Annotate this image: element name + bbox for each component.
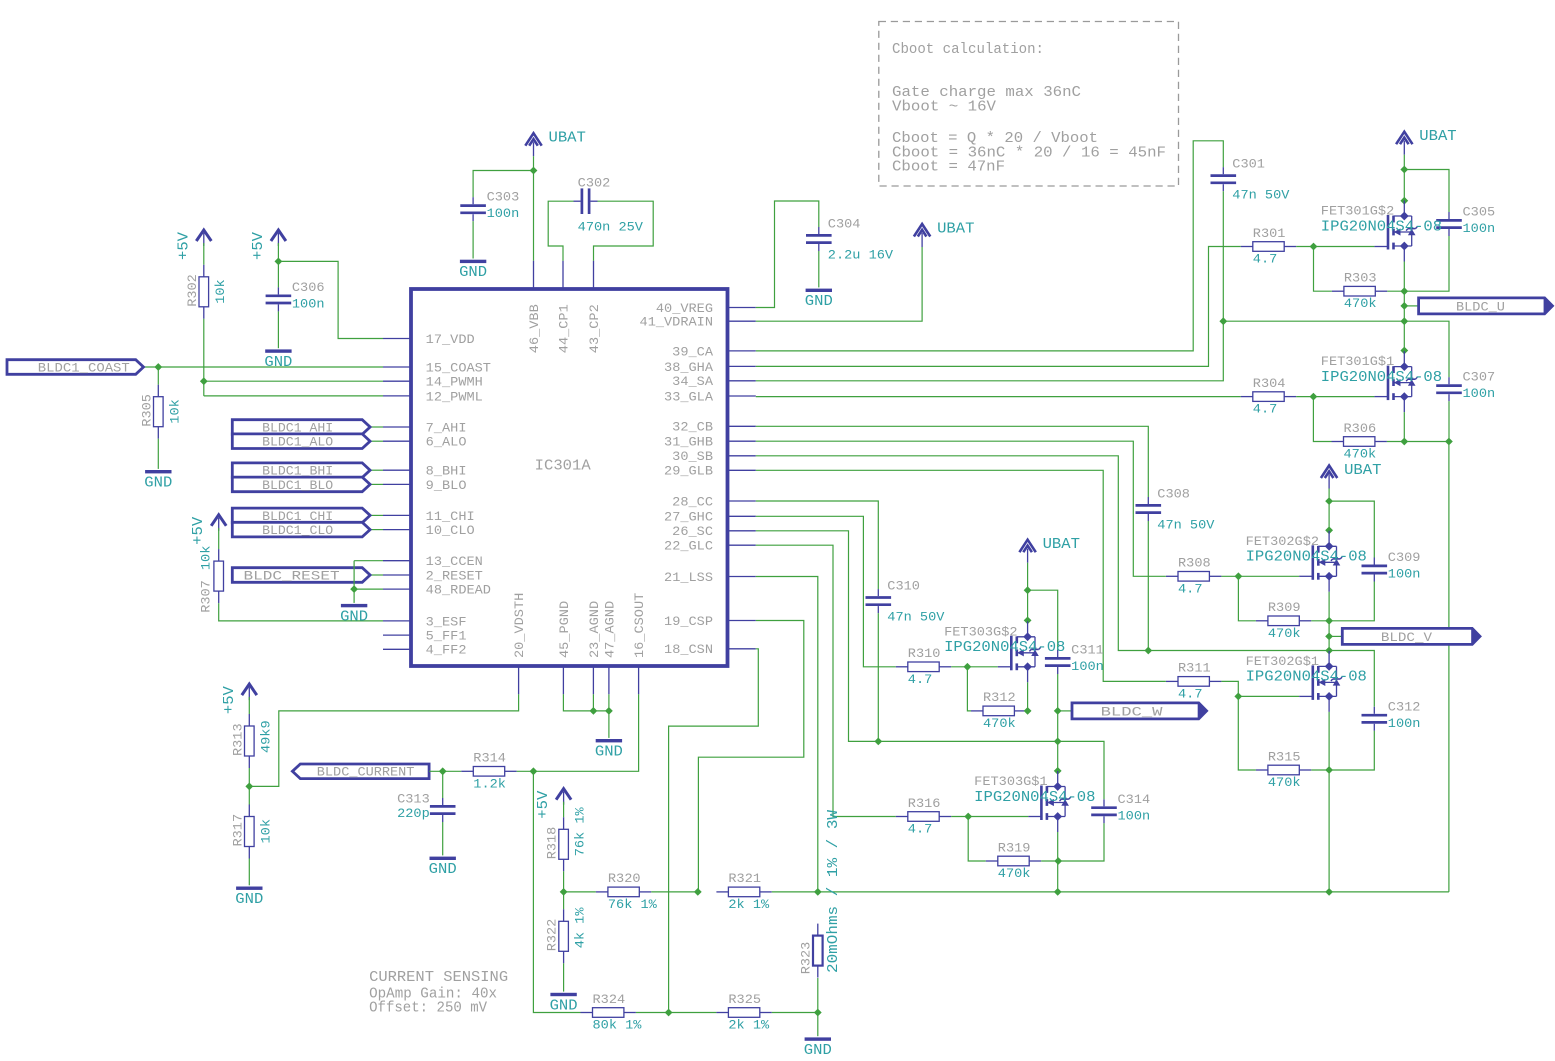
capacitor C301 [1222, 167, 1224, 174]
wire C307 bottom [1448, 401, 1450, 441]
svg-text:R305: R305 [139, 394, 154, 427]
svg-text:R302: R302 [185, 274, 200, 307]
svg-text:C306: C306 [292, 280, 325, 295]
svg-text:28_CC: 28_CC [672, 494, 713, 509]
wire AGND to ground [608, 711, 610, 738]
svg-text:R315: R315 [1268, 749, 1301, 764]
svg-text:10k: 10k [167, 399, 182, 424]
wire UBAT to FET302 drain [1328, 489, 1330, 531]
wire C309 bottom to phase V [1329, 582, 1374, 621]
svg-text:29_GLB: 29_GLB [664, 464, 713, 479]
capacitor C313 [442, 798, 444, 805]
wire R301 to gate junction [1296, 246, 1313, 248]
svg-text:C313: C313 [397, 792, 430, 807]
wire RDEAD to ground [354, 588, 383, 590]
svg-text:18_CSN: 18_CSN [664, 642, 713, 657]
svg-text:FET302G$1: FET302G$1 [1246, 654, 1320, 669]
svg-text:CURRENT SENSING: CURRENT SENSING [369, 970, 508, 986]
svg-text:45_PGND: 45_PGND [557, 601, 572, 658]
IC pin 10_CLO [383, 529, 411, 531]
junction R313/R317/VDSTH [245, 783, 253, 791]
junction SA/phase U [1400, 317, 1408, 325]
svg-text:GND: GND [429, 862, 457, 878]
wire gate V-high [1238, 575, 1299, 577]
wire R315 to phase source [1311, 769, 1329, 771]
transistor FET302G$2 (N-MOSFET) [1312, 545, 1315, 580]
wire gate node to R306 [1313, 397, 1331, 442]
wire FET303G2 source to phase node [1027, 682, 1029, 711]
capacitor C307 [1448, 377, 1450, 384]
svg-text:UBAT: UBAT [1344, 463, 1382, 479]
junction VDD/C306 [275, 258, 283, 266]
capacitor C308 [1147, 497, 1149, 504]
wire C312 bottom to R315 row [1329, 731, 1374, 770]
svg-text:R303: R303 [1344, 271, 1377, 286]
wire GLA to R304 [756, 396, 1241, 398]
ground [430, 857, 456, 860]
IC pin 12_PWML [383, 395, 411, 397]
svg-text:47_AGND: 47_AGND [602, 601, 617, 658]
svg-text:38_GHA: 38_GHA [664, 360, 713, 375]
wire BLDC1_CHI to IC [370, 514, 383, 516]
svg-text:14_PWMH: 14_PWMH [426, 375, 483, 390]
wire PWML [204, 395, 383, 397]
IC pin 23_AGND [592, 666, 594, 694]
wire gate W-high [967, 666, 997, 668]
wire C304 bottom to ground [818, 251, 820, 287]
svg-text:C304: C304 [828, 217, 861, 232]
svg-text:C311: C311 [1071, 643, 1104, 658]
junction phase U node [1400, 287, 1408, 295]
IC pin 46_VBB [533, 261, 535, 289]
junction R301/R303 gate node U-high [1310, 243, 1318, 251]
svg-text:2k 1%: 2k 1% [728, 1018, 769, 1033]
junction R308/R309 gate node V-high [1235, 572, 1243, 580]
svg-text:IC301A: IC301A [535, 459, 591, 475]
resistor R313 [248, 714, 250, 726]
wire BLDC_CURRENT to R314 [429, 770, 461, 772]
svg-text:470k: 470k [998, 866, 1031, 881]
IC pin 6_ALO [383, 440, 411, 442]
wire CSN [669, 649, 759, 1013]
junction R311/R315 gate node V-low [1234, 693, 1242, 701]
svg-text:UBAT: UBAT [937, 221, 975, 237]
resistor R312 [971, 710, 983, 712]
junction source/R319/C314 [1054, 857, 1062, 865]
wire gate V-low [1238, 695, 1299, 697]
svg-text:100n: 100n [1071, 659, 1104, 674]
wire AGND 23 [592, 694, 594, 711]
ground [806, 289, 832, 292]
svg-text:R310: R310 [908, 646, 941, 661]
svg-text:470k: 470k [1344, 447, 1377, 462]
wire gate node to R312 [967, 667, 971, 711]
svg-text:34_SA: 34_SA [672, 374, 713, 389]
wire SA to C307 top [1404, 321, 1449, 377]
svg-text:Cboot = 47nF: Cboot = 47nF [892, 159, 1005, 175]
junction drain pin U-low [1400, 347, 1408, 355]
transistor FET301G$2 (N-MOSFET) [1387, 215, 1390, 250]
IC pin 8_BHI [383, 469, 411, 471]
net flag BLDC1_CHI [232, 508, 370, 523]
svg-text:UBAT: UBAT [1419, 129, 1457, 145]
svg-text:10k: 10k [199, 545, 214, 570]
svg-text:4k 1%: 4k 1% [573, 907, 588, 948]
wire R323 to CSN node [817, 978, 819, 1036]
IC pin 14_PWMH [383, 380, 411, 382]
svg-text:C301: C301 [1232, 157, 1265, 172]
wire +5V to R307 [218, 528, 220, 549]
junction SB/phase V [1325, 647, 1333, 655]
net flag BLDC1_BHI [232, 463, 370, 478]
IC pin 40_VREG [728, 307, 756, 309]
wire C313 top [442, 771, 444, 798]
wire C311 top branch [1028, 590, 1058, 650]
resistor R305 [157, 385, 159, 397]
svg-text:+5V: +5V [251, 232, 267, 260]
wire R307 to ESF pin [219, 603, 383, 621]
svg-text:100n: 100n [1463, 386, 1496, 401]
svg-text:R320: R320 [608, 871, 641, 886]
svg-text:IPG20N04S4-08: IPG20N04S4-08 [1246, 550, 1367, 566]
wire R309 to phase V [1311, 620, 1329, 622]
junction phase W/C311/flag [1054, 707, 1062, 715]
resistor R314 [461, 770, 473, 772]
svg-text:22_GLC: 22_GLC [664, 539, 713, 554]
wire gate node to R319 [968, 817, 986, 862]
svg-text:BLDC1_COAST: BLDC1_COAST [38, 360, 130, 375]
wire gate node to R303 [1314, 247, 1332, 292]
wire R313 to R317 [248, 768, 250, 805]
svg-text:R306: R306 [1344, 421, 1377, 436]
svg-text:11_CHI: 11_CHI [426, 509, 475, 524]
junction W source/bus [1054, 888, 1062, 896]
wire R314 to CSOUT node [517, 770, 534, 772]
svg-text:R309: R309 [1268, 600, 1301, 615]
svg-text:3_ESF: 3_ESF [426, 614, 467, 629]
wire BLDC_U stub [1404, 305, 1418, 307]
junction R323/R325/GND [814, 1009, 822, 1017]
wire GLB to R311 [756, 470, 1166, 681]
wire FET303G1 source down to bus [1057, 832, 1059, 892]
note box Cboot calculation [879, 22, 1179, 187]
svg-text:1.2k: 1.2k [473, 776, 506, 791]
UBAT supply [1321, 466, 1337, 479]
resistor R319 [986, 860, 998, 862]
resistor R310 [896, 666, 908, 668]
junction R310/R312 gate node W-high [964, 663, 972, 671]
wire R310 to gate junction [951, 666, 967, 668]
junction source/R306 [1400, 438, 1408, 446]
resistor R302 [203, 265, 205, 277]
wire R311 jog to gate junction [1221, 681, 1238, 696]
+5V supply [211, 515, 226, 526]
junction SA/C301 [1219, 317, 1227, 325]
svg-text:47n 50V: 47n 50V [1157, 518, 1214, 533]
svg-text:BLDC_W: BLDC_W [1101, 704, 1163, 719]
svg-text:100n: 100n [1388, 716, 1421, 731]
svg-text:UBAT: UBAT [1043, 537, 1081, 553]
svg-text:47n 50V: 47n 50V [1232, 188, 1289, 203]
IC pin 16_CSOUT [638, 666, 640, 694]
wire BLDC1_AHI to IC [370, 426, 383, 428]
wire VREG to C304 [756, 201, 819, 308]
IC pin 17_VDD [383, 338, 411, 340]
wire R317 to ground [248, 859, 250, 886]
IC pin 27_GHC [728, 515, 756, 517]
wire CA to C301 [756, 141, 1224, 351]
wire C301 bottom to SA node [1222, 191, 1224, 321]
wire R318 to divider node [563, 871, 565, 909]
svg-text:10k: 10k [213, 279, 228, 304]
svg-text:GND: GND [459, 265, 487, 281]
IC pin 22_GLC [728, 544, 756, 546]
junction UBAT/C305 branch [1400, 166, 1408, 174]
junction source/R315 [1325, 766, 1333, 774]
IC pin 48_RDEAD [383, 588, 411, 590]
IC pin 18_CSN [728, 648, 756, 650]
svg-text:BLDC1_BLO: BLDC1_BLO [262, 478, 333, 493]
capacitor C304 [818, 227, 820, 234]
svg-text:80k 1%: 80k 1% [593, 1018, 642, 1033]
ground [596, 739, 622, 742]
wire CB to C308 [756, 426, 1149, 497]
wire R306 to source node [1387, 441, 1404, 443]
svg-text:17_VDD: 17_VDD [426, 332, 475, 347]
svg-text:470k: 470k [983, 716, 1016, 731]
wire CSOUT to R314 node [533, 694, 638, 771]
svg-text:100n: 100n [487, 206, 520, 221]
svg-text:FET301G$1: FET301G$1 [1321, 354, 1395, 369]
ground [236, 887, 262, 890]
wire R303 to phase U [1387, 290, 1404, 292]
wire C305 bottom to phase U [1404, 236, 1449, 291]
wire BLDC_V stub [1329, 635, 1342, 637]
wire gate node to R315 [1238, 696, 1256, 770]
wire source row to right column [1404, 441, 1449, 443]
wire gate U-low [1313, 396, 1374, 398]
wire R325 to R323 bottom [772, 1012, 818, 1014]
IC pin 2_RESET [383, 574, 411, 576]
wire VDRAIN to UBAT [756, 247, 922, 321]
net flag BLDC1_AHI [232, 420, 370, 435]
wire AGND 47 [608, 694, 610, 711]
UBAT supply [914, 224, 930, 237]
svg-text:C309: C309 [1388, 550, 1421, 565]
svg-text:48_RDEAD: 48_RDEAD [426, 583, 491, 598]
svg-text:76k 1%: 76k 1% [608, 897, 657, 912]
wire C310 bottom to SC node [877, 613, 879, 741]
ground [460, 260, 486, 263]
svg-text:8_BHI: 8_BHI [426, 464, 467, 479]
wire R324 to CSN junction [636, 1012, 717, 1014]
UBAT supply [525, 133, 541, 146]
svg-text:43_CP2: 43_CP2 [587, 304, 602, 353]
capacitor C303 [472, 197, 474, 204]
junction phase W node [1024, 707, 1032, 715]
resistor R320 [596, 891, 608, 893]
wire R305 bottom to ground [157, 439, 159, 469]
svg-text:IPG20N04S4-08: IPG20N04S4-08 [944, 640, 1065, 656]
net flag BLDC1_COAST [7, 360, 144, 375]
svg-text:5_FF1: 5_FF1 [426, 629, 467, 644]
junction SC/C310 [874, 738, 882, 746]
wire CSOUT node down to R324 [533, 771, 580, 1012]
wire VDD net to pin 17 [278, 261, 383, 338]
wire BLDC1_BLO to IC [370, 483, 383, 485]
resistor R304 [1241, 396, 1253, 398]
junction R302/PWMH [200, 377, 208, 385]
svg-text:BLDC_RESET: BLDC_RESET [244, 568, 340, 583]
IC pin 43_CP2 [593, 261, 595, 289]
wire C311 bottom to phase W [1057, 674, 1059, 711]
svg-text:R321: R321 [728, 871, 761, 886]
svg-text:GND: GND [264, 355, 292, 371]
wire C303 bottom to ground [472, 221, 474, 258]
wire gate node to R309 [1238, 576, 1256, 621]
svg-text:R316: R316 [908, 796, 941, 811]
junction C307/source column [1445, 438, 1453, 446]
svg-text:100n: 100n [1463, 221, 1496, 236]
IC pin 30_SB [728, 455, 756, 457]
svg-text:6_ALO: 6_ALO [426, 435, 467, 450]
wire C314 bottom to R319 row [1058, 823, 1104, 861]
svg-text:100n: 100n [1118, 808, 1151, 823]
transistor FET303G$1 (N-MOSFET) [1040, 786, 1043, 821]
svg-text:C307: C307 [1463, 370, 1496, 385]
wire FET302G2 source to phase node [1328, 592, 1330, 621]
svg-text:GND: GND [595, 745, 623, 761]
IC pin 11_CHI [383, 514, 411, 516]
net flag BLDC1_COAST wire [144, 366, 384, 368]
wire UBAT to VBB [533, 156, 535, 261]
svg-text:Vboot ~ 16V: Vboot ~ 16V [892, 99, 996, 115]
wire LSS to shunt column [756, 577, 818, 892]
svg-text:39_CA: 39_CA [672, 344, 713, 359]
junction BLDC_U branch [1400, 302, 1408, 310]
svg-text:4.7: 4.7 [1178, 581, 1202, 596]
svg-text:49k9: 49k9 [258, 720, 273, 753]
svg-text:BLDC_U: BLDC_U [1456, 299, 1505, 314]
wire shunt bus [818, 891, 1449, 893]
wire BLDC1_CLO to IC [370, 529, 383, 531]
wire SC to C314 top [1058, 741, 1104, 799]
svg-text:220p: 220p [397, 806, 430, 821]
net flag BLDC1_ALO [232, 434, 370, 449]
junction BLDC_V branch [1325, 633, 1333, 641]
UBAT supply [1396, 132, 1412, 145]
IC pin 3_ESF [383, 620, 411, 622]
wire PGND to AGND [563, 694, 609, 711]
transistor FET301G$1 (N-MOSFET) [1387, 366, 1390, 401]
svg-text:23_AGND: 23_AGND [587, 601, 602, 658]
svg-text:47n 50V: 47n 50V [887, 610, 944, 625]
svg-text:9_BLO: 9_BLO [426, 478, 467, 493]
svg-text:4.7: 4.7 [1253, 252, 1277, 267]
wire CC to C310 [756, 501, 879, 589]
svg-text:R311: R311 [1178, 661, 1211, 676]
IC pin 34_SA [728, 380, 756, 382]
junction UBAT/C303 [530, 167, 538, 175]
wire PWMH [204, 380, 383, 382]
svg-text:IPG20N04S4-08: IPG20N04S4-08 [1321, 370, 1442, 386]
junction COAST/R305 [154, 363, 162, 371]
ground [550, 993, 576, 996]
svg-text:10k: 10k [258, 819, 273, 844]
svg-text:BLDC1_ALO: BLDC1_ALO [262, 435, 333, 450]
IC pin 28_CC [728, 500, 756, 502]
junction drain pin U-high [1400, 197, 1408, 205]
svg-text:IPG20N04S4-08: IPG20N04S4-08 [1246, 670, 1367, 686]
svg-text:4.7: 4.7 [908, 672, 932, 687]
net flag BLDC_CURRENT [292, 764, 429, 779]
wire FET301 source to phase node [1403, 262, 1405, 292]
svg-text:FET301G$2: FET301G$2 [1321, 204, 1394, 219]
junction R324/R325/CSN [665, 1009, 673, 1017]
junction UBAT/C311 branch [1024, 586, 1032, 594]
svg-text:R325: R325 [728, 992, 761, 1007]
wire SA line [756, 321, 1405, 381]
svg-text:C303: C303 [487, 190, 520, 205]
svg-text:GND: GND [805, 294, 833, 310]
wire UBAT to FET303 drain [1027, 563, 1029, 621]
svg-text:IPG20N04S4-08: IPG20N04S4-08 [974, 790, 1095, 806]
IC pin 19_CSP [728, 620, 756, 622]
svg-text:15_COAST: 15_COAST [426, 360, 491, 375]
capacitor C311 [1057, 650, 1059, 657]
svg-text:C308: C308 [1157, 487, 1190, 502]
svg-text:R324: R324 [593, 992, 626, 1007]
junction drain pin W-low [1054, 767, 1062, 775]
svg-text:C312: C312 [1388, 699, 1421, 714]
junction SB/C308 [1144, 647, 1152, 655]
resistor R318 [563, 817, 565, 829]
svg-text:33_GLA: 33_GLA [664, 389, 713, 404]
+5V supply [556, 789, 571, 800]
svg-text:R314: R314 [473, 751, 506, 766]
wire GHC to R310 [756, 516, 896, 667]
wire +5V to VDD node [277, 243, 279, 261]
svg-text:26_SC: 26_SC [672, 524, 713, 539]
resistor R317 [248, 805, 250, 817]
svg-text:470k: 470k [1344, 296, 1377, 311]
capacitor C305 [1448, 212, 1450, 219]
wire SB to C312 top [1329, 651, 1374, 707]
svg-text:C314: C314 [1118, 792, 1151, 807]
svg-text:R317: R317 [230, 814, 245, 847]
junction R320/R321/CSP [694, 888, 702, 896]
svg-text:2.2u 16V: 2.2u 16V [828, 248, 893, 263]
wire C302 right to CP2 [594, 201, 654, 261]
svg-text:31_GHB: 31_GHB [664, 435, 713, 450]
svg-text:BLDC_CURRENT: BLDC_CURRENT [317, 765, 415, 780]
svg-text:+5V: +5V [176, 232, 192, 260]
junction LSS/R321/R323 bus [814, 888, 822, 896]
resistor R325 [716, 1012, 728, 1014]
capacitor C314 [1103, 799, 1105, 806]
UBAT supply [1019, 540, 1035, 553]
wire R320 to CSP node [651, 891, 698, 893]
svg-text:R308: R308 [1178, 556, 1211, 571]
wire GLC to R316 [756, 545, 896, 816]
svg-text:R322: R322 [545, 919, 560, 952]
wire C308 bottom to SB node [1147, 521, 1149, 651]
svg-text:41_VDRAIN: 41_VDRAIN [640, 315, 713, 330]
wire GHA to R301 [756, 247, 1241, 367]
svg-text:GND: GND [144, 476, 172, 492]
wire SC line [756, 531, 1058, 742]
IC pin 5_FF1 [383, 634, 411, 636]
